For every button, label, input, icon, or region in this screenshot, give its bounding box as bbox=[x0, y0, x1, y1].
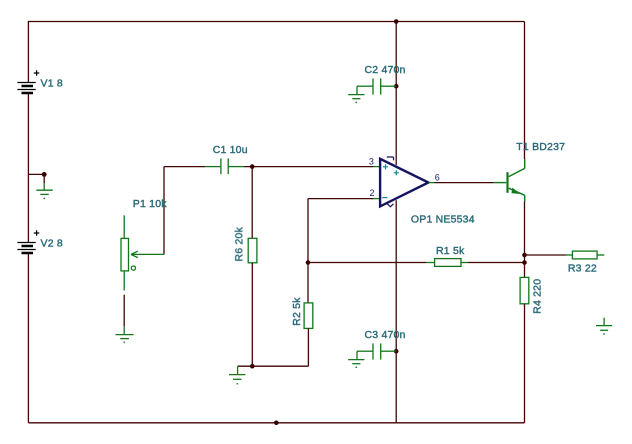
wire collector vertical (top rail down) bbox=[524, 22, 526, 160]
wire op-amp pin2 stub bbox=[374, 198, 381, 200]
ground G5 (R6/R2) bbox=[229, 366, 245, 384]
resistor R4 bbox=[520, 277, 529, 303]
wire feedback horizontal to R1 bbox=[308, 262, 426, 264]
op-amp minus marker pin2 bbox=[382, 197, 387, 199]
svg-text:C1 10u: C1 10u bbox=[213, 144, 248, 156]
wire V+ vertical (top rail to op-amp) bbox=[395, 22, 397, 166]
capacitor C3 bbox=[357, 343, 396, 359]
svg-text:R4 220: R4 220 bbox=[531, 279, 543, 314]
wire ground stub from left rail bbox=[28, 174, 44, 183]
ground G2 (below P1) bbox=[116, 326, 134, 342]
op-amp plus marker pin3 bbox=[383, 164, 388, 169]
node R3/emitter junction bbox=[522, 253, 527, 258]
wire P1 bottom to ground bbox=[123, 295, 125, 327]
svg-text:R3 22: R3 22 bbox=[568, 263, 597, 275]
ground G4 (C3) bbox=[348, 360, 364, 368]
svg-text:P1 10k: P1 10k bbox=[133, 198, 167, 210]
svg-text:3: 3 bbox=[369, 156, 374, 166]
capacitor C2 bbox=[357, 78, 396, 94]
wire R6 bottom lead bbox=[251, 263, 253, 366]
wire ground run (R2 bottom to ground) bbox=[238, 365, 309, 367]
svg-text:T1 BD237: T1 BD237 bbox=[516, 141, 565, 153]
node C3 junction bbox=[394, 349, 399, 354]
svg-text:2: 2 bbox=[369, 188, 374, 198]
wire C1 right to op-amp pin 3 bbox=[244, 166, 374, 168]
svg-text:R6 20k: R6 20k bbox=[233, 226, 245, 261]
ground G1 (between V1 and V2) bbox=[36, 183, 52, 198]
node R1/emitter junction bbox=[522, 260, 527, 265]
wire left rail lower (V2 - to bottom rail) bbox=[27, 254, 29, 423]
ground G6 (right, output) bbox=[596, 318, 612, 334]
transistor T1 bbox=[494, 159, 525, 202]
node top rail / V+ junction bbox=[394, 19, 399, 24]
svg-text:R1 5k: R1 5k bbox=[436, 245, 465, 257]
wire op-amp pin2 horizontal bbox=[308, 198, 374, 200]
resistor R2 bbox=[304, 303, 313, 329]
potentiometer P1 bbox=[121, 215, 164, 290]
node R6/R2 ground junction bbox=[250, 364, 255, 369]
node ground stub junction bbox=[42, 172, 47, 177]
resistor R1 bbox=[426, 259, 468, 267]
op-amp plus marker supply bbox=[394, 170, 399, 175]
svg-text:R2 5k: R2 5k bbox=[291, 297, 303, 326]
wire R4 bottom to bottom rail bbox=[524, 304, 526, 423]
node bottom rail dot bbox=[274, 421, 279, 426]
wire C1 left lead to wiper riser bbox=[164, 166, 205, 168]
battery V1 bbox=[17, 70, 39, 93]
node C2 junction bbox=[394, 84, 399, 89]
wire op-amp output stub bbox=[428, 182, 434, 184]
op-amp OP1 bbox=[380, 159, 428, 207]
battery V2 bbox=[17, 230, 39, 253]
wire op-amp output to T1 base bbox=[435, 182, 494, 184]
node feedback junction bbox=[306, 260, 311, 265]
transistor T1 emitter arrow bbox=[512, 188, 521, 194]
wire wiper riser bbox=[163, 167, 165, 255]
resistor R3 bbox=[566, 251, 605, 259]
resistor R6 bbox=[248, 238, 257, 262]
svg-text:6: 6 bbox=[435, 173, 440, 183]
svg-text:C2 470n: C2 470n bbox=[364, 64, 405, 76]
wire emitter node to R3 bbox=[525, 254, 566, 256]
wire left rail middle (V1 - to V2 +) bbox=[27, 94, 29, 243]
node C1/R6 junction bbox=[250, 164, 255, 169]
wire op-amp pin3 stub bbox=[374, 166, 381, 168]
wire feedback vertical (pin2 to R2) bbox=[307, 199, 309, 303]
ground G3 (C2) bbox=[348, 95, 364, 103]
svg-text:OP1 NE5534: OP1 NE5534 bbox=[411, 214, 475, 226]
wire left rail upper (top rail to V1 +) bbox=[27, 21, 29, 82]
wire R6 top lead bbox=[251, 167, 253, 239]
wire emitter vertical to R4 bbox=[524, 202, 526, 278]
wire R2 bottom lead bbox=[307, 328, 309, 366]
capacitor C1 bbox=[205, 158, 244, 174]
svg-text:V1 8: V1 8 bbox=[40, 78, 62, 90]
svg-text:C3 470n: C3 470n bbox=[364, 329, 405, 341]
wire bottom rail bbox=[28, 422, 524, 424]
wire top rail bbox=[28, 21, 524, 23]
wire V- vertical (op-amp to bottom rail) bbox=[395, 200, 397, 422]
wire R1 right to emitter node bbox=[468, 262, 525, 264]
op-amp pin4 marker (bottom) bbox=[387, 204, 393, 207]
svg-text:V2 8: V2 8 bbox=[40, 238, 62, 250]
op-amp pin7 marker (top) bbox=[387, 157, 394, 160]
